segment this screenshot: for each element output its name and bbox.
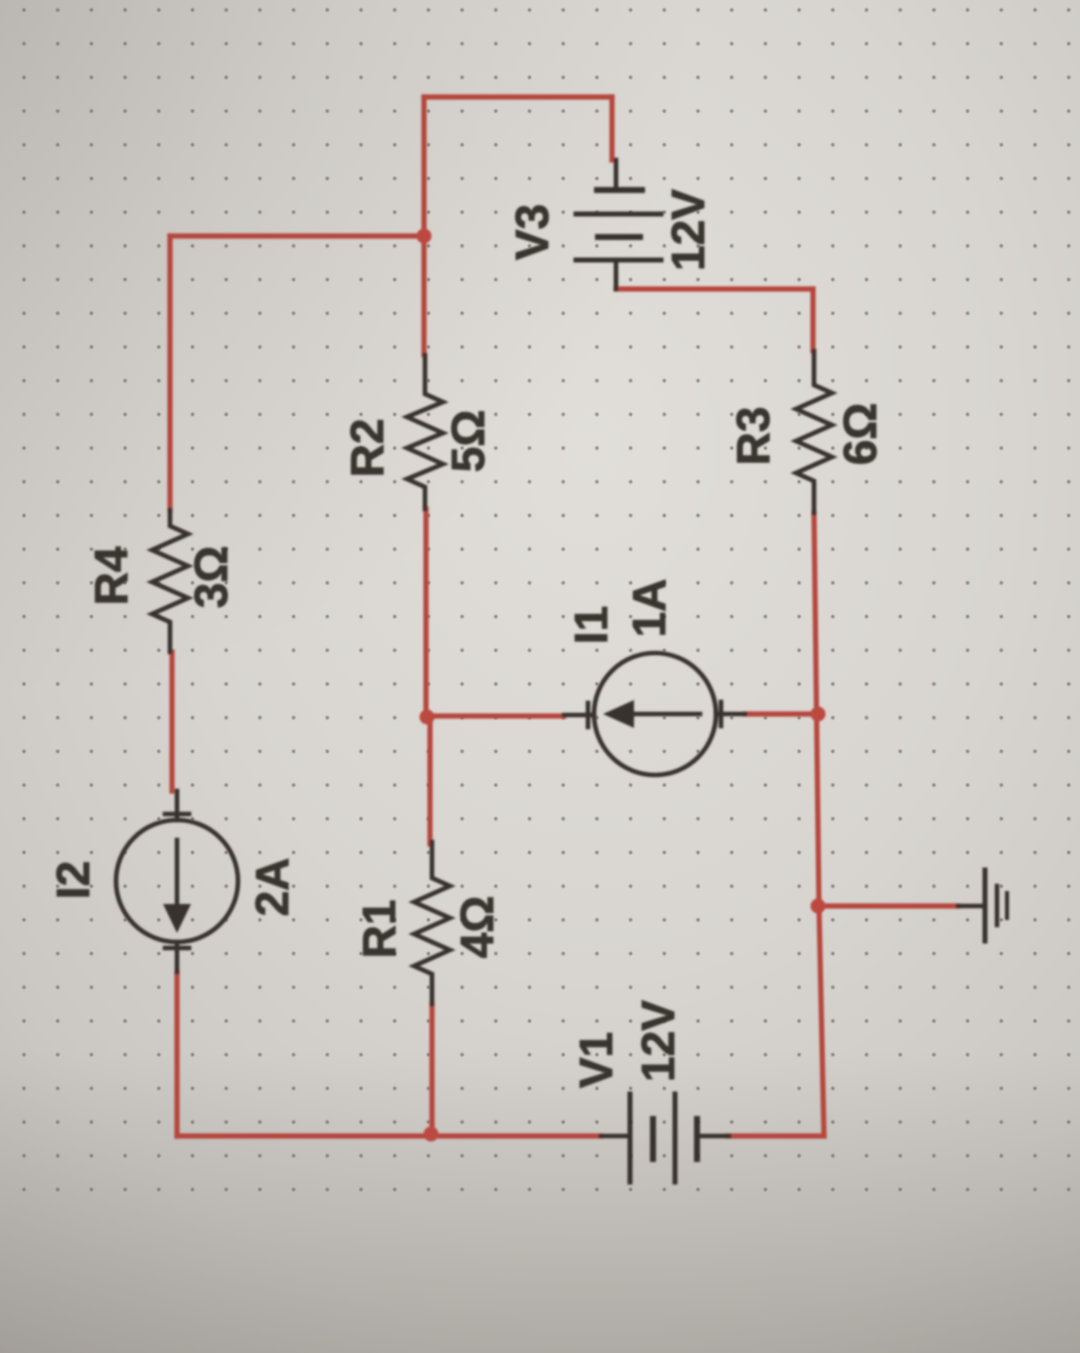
battery V3 plate3 short [598,234,640,240]
I2 top tick [165,812,189,817]
svg-text:1A: 1A [623,579,675,638]
wire I1 to J4 [745,711,819,716]
wire V3 bottom horizontal [616,286,813,291]
svg-text:V1: V1 [570,1032,622,1088]
current source I1 circle [594,653,716,775]
ground bar3 [1005,893,1009,918]
svg-text:12V: 12V [632,1000,684,1082]
ground lead [958,904,985,909]
svg-text:12V: 12V [662,189,714,271]
battery V3 plate2 long [576,212,661,217]
battery V3 plate1 short [597,187,642,193]
svg-text:V3: V3 [506,204,558,260]
battery V1 plate4 short [694,1119,700,1159]
I1 right lead [716,712,745,717]
node J5 [811,899,826,914]
node J4 [811,707,826,722]
wire I2 bottom vertical [174,972,179,1136]
wire left vertical to R2 [421,97,426,355]
svg-text:I1: I1 [565,606,617,644]
battery V1 left lead [601,1134,627,1139]
I1 left tick [586,703,591,727]
I2 arrow shaft [175,840,180,906]
svg-text:R3: R3 [727,407,779,466]
wire J1 horizontal [170,233,424,238]
battery V3 plate4 long [576,258,661,263]
wire ground stub [819,903,958,908]
battery V1 plate3 long [673,1094,678,1182]
battery V1 right lead [700,1134,729,1139]
battery V1 plate1 long [628,1094,633,1182]
wire R1 bottom vertical [429,1004,434,1135]
wire top rail [424,94,612,99]
node J1 [417,229,432,244]
svg-text:R2: R2 [341,419,393,478]
resistor R2 [407,355,443,509]
battery V3 bottom lead [614,263,619,289]
battery V3 top lead [614,160,619,187]
wire V3 top stub [609,97,614,160]
svg-text:I2: I2 [47,861,99,899]
battery V1 plate2 short [650,1119,656,1159]
I1 right tick [719,702,724,726]
wire bottom rail left [177,1133,601,1138]
node J2 [420,710,435,725]
I1 left lead [564,713,594,718]
resistor R4 [152,510,188,652]
wire R4-I2 vertical [169,652,174,791]
wire R4 top vertical [167,236,172,510]
I2 bottom lead [175,942,180,972]
wire R2 bottom vertical [423,509,428,716]
svg-text:6Ω: 6Ω [834,403,886,465]
wire bottom rail right [727,1133,824,1138]
ground bar1 [983,870,988,941]
svg-text:R1: R1 [353,900,405,959]
I1 arrow head [603,700,634,728]
I2 bottom tick [165,946,189,951]
svg-text:4Ω: 4Ω [451,896,503,958]
wire right vertical [814,513,824,1136]
ground bar2 [995,886,1000,925]
resistor R1 [414,842,450,1004]
wire J2 to I1 [428,713,564,718]
I2 top lead [175,791,180,820]
I1 arrow shaft [634,712,700,717]
node J3 [424,1127,439,1142]
svg-text:2A: 2A [246,858,298,917]
current source I2 circle [116,820,238,942]
svg-text:R4: R4 [85,546,137,605]
svg-text:5Ω: 5Ω [442,410,494,472]
I2 arrow head [163,904,191,933]
wire R1 top vertical [427,716,432,844]
wire V3-R3 vertical [810,289,815,351]
resistor R3 [796,351,832,513]
svg-text:3Ω: 3Ω [185,546,237,608]
